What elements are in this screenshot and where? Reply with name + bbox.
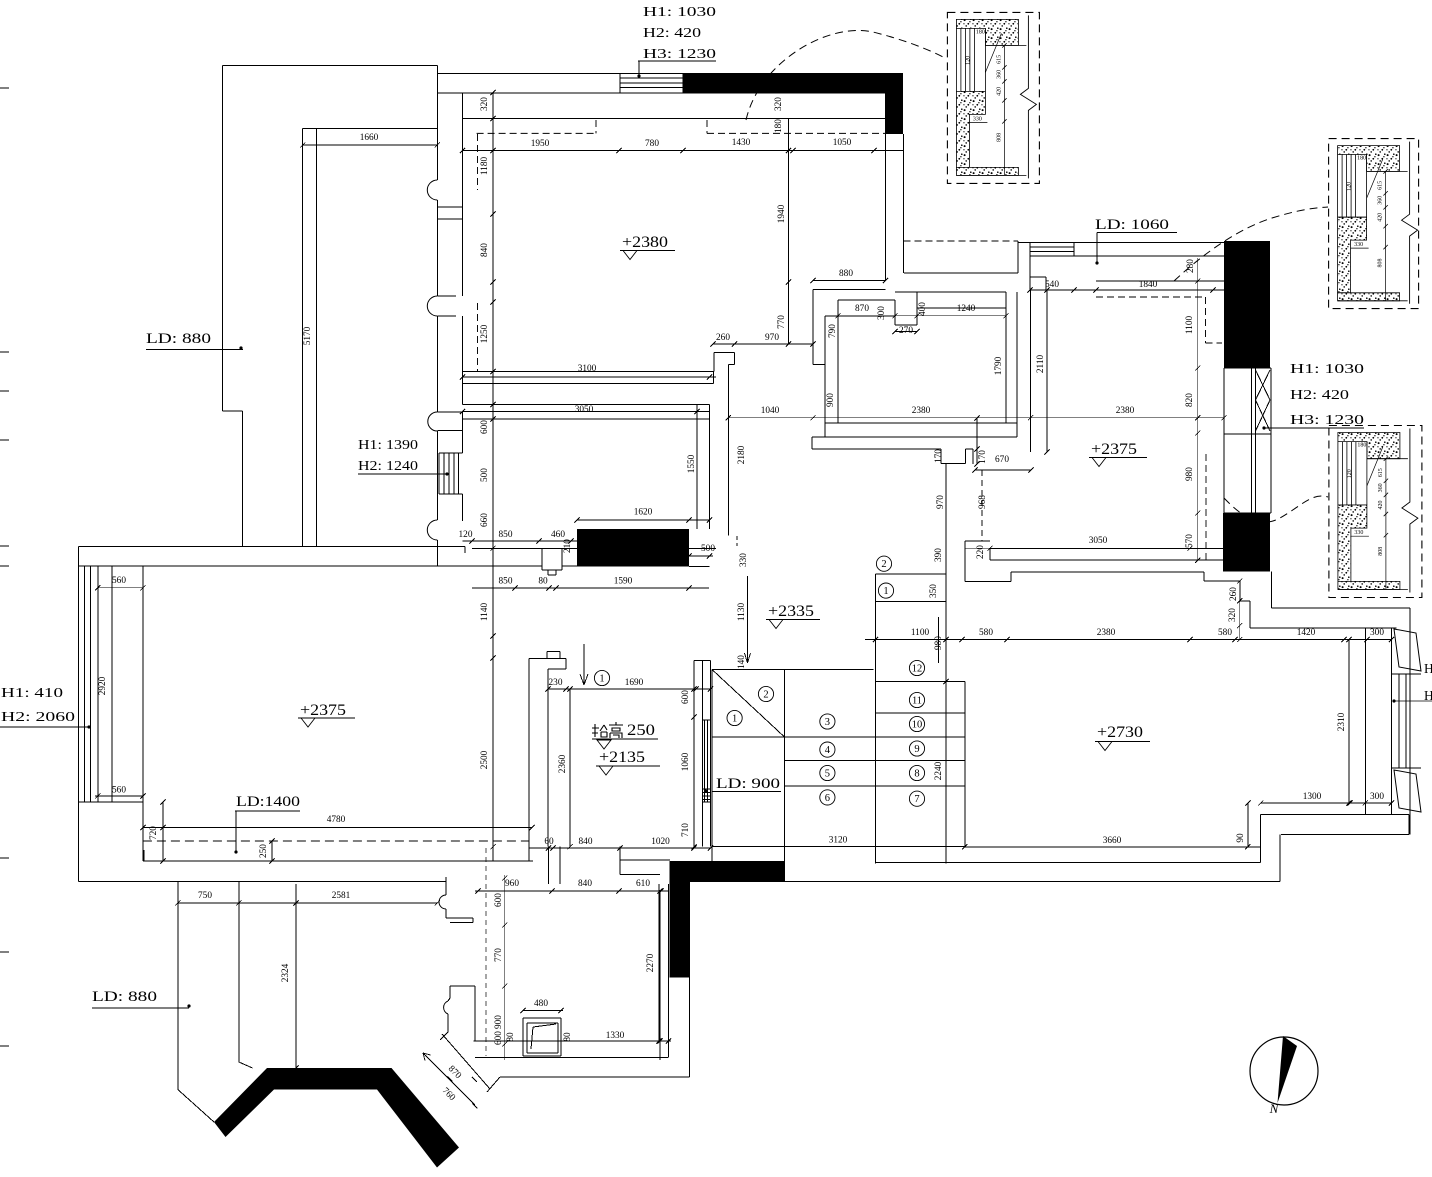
svg-text:580: 580 (979, 628, 993, 638)
svg-text:660: 660 (480, 513, 490, 527)
svg-text:8: 8 (914, 768, 919, 779)
svg-text:980: 980 (1185, 467, 1195, 481)
svg-text:420: 420 (996, 87, 1002, 96)
svg-text:H1: 1030: H1: 1030 (1290, 362, 1364, 377)
svg-text:H2: 1240: H2: 1240 (358, 459, 418, 474)
svg-text:540: 540 (1045, 280, 1059, 290)
svg-text:600: 600 (480, 420, 490, 434)
svg-text:1690: 1690 (625, 678, 644, 688)
svg-text:790: 790 (828, 324, 838, 338)
circled stair numbers (594, 670, 609, 685)
svg-text:600: 600 (681, 690, 691, 704)
svg-text:500: 500 (480, 468, 490, 482)
svg-text:12: 12 (912, 663, 923, 674)
svg-text:1100: 1100 (911, 628, 930, 638)
svg-text:3120: 3120 (829, 836, 848, 846)
svg-text:330: 330 (739, 553, 749, 567)
svg-text:2270: 2270 (646, 953, 656, 972)
svg-text:120: 120 (1347, 182, 1353, 191)
leader dashed curves (746, 30, 945, 120)
svg-text:60: 60 (544, 837, 554, 847)
svg-text:80: 80 (538, 577, 548, 587)
svg-text:H2: 420: H2: 420 (1290, 388, 1349, 403)
svg-text:1420: 1420 (1297, 628, 1316, 638)
svg-text:560: 560 (112, 786, 126, 796)
hand-drawn CJK label 抬高250 (592, 722, 623, 738)
svg-text:1950: 1950 (531, 139, 550, 149)
north compass (1250, 1037, 1318, 1105)
svg-text:808: 808 (1378, 259, 1384, 268)
svg-text:120: 120 (459, 530, 473, 540)
bay window sash flags (1394, 629, 1421, 671)
svg-text:9: 9 (914, 744, 919, 755)
svg-text:480: 480 (534, 999, 548, 1009)
svg-text:840: 840 (579, 837, 593, 847)
svg-text:250: 250 (627, 722, 655, 739)
svg-text:320: 320 (1228, 608, 1238, 622)
extra output shapes (623, 251, 637, 260)
svg-text:80: 80 (506, 1032, 516, 1042)
svg-text:4780: 4780 (327, 815, 346, 825)
door swing arcs (427, 180, 437, 200)
svg-text:968: 968 (978, 495, 988, 509)
svg-text:1550: 1550 (687, 454, 697, 473)
svg-text:870: 870 (855, 304, 869, 314)
svg-text:820: 820 (1185, 393, 1195, 407)
svg-text:420: 420 (1378, 213, 1384, 222)
svg-text:5170: 5170 (303, 326, 313, 345)
svg-text:900: 900 (494, 1015, 504, 1029)
detail box top (947, 12, 1039, 183)
svg-text:610: 610 (636, 879, 650, 889)
svg-text:850: 850 (499, 577, 513, 587)
svg-text:1790: 1790 (994, 356, 1004, 375)
svg-text:250: 250 (259, 844, 269, 858)
black filled walls (683, 73, 903, 134)
svg-text:300: 300 (1370, 628, 1384, 638)
svg-text:170: 170 (978, 450, 988, 464)
svg-text:1020: 1020 (651, 837, 670, 847)
svg-text:LD: 880: LD: 880 (92, 989, 157, 1005)
svg-text:970: 970 (936, 495, 946, 509)
svg-text:840: 840 (578, 879, 592, 889)
svg-text:460: 460 (551, 530, 565, 540)
svg-text:2581: 2581 (332, 891, 351, 901)
svg-text:+2380: +2380 (622, 234, 668, 251)
svg-text:2380: 2380 (912, 406, 931, 416)
svg-text:+2335: +2335 (768, 603, 814, 620)
svg-text:+2135: +2135 (599, 749, 645, 766)
svg-text:3050: 3050 (575, 405, 594, 415)
svg-text:1590: 1590 (614, 577, 633, 587)
svg-text:970: 970 (765, 333, 779, 343)
svg-text:330: 330 (1354, 530, 1363, 536)
svg-text:H: H (1424, 661, 1432, 676)
svg-text:260: 260 (1229, 587, 1239, 601)
svg-text:280: 280 (1186, 259, 1196, 273)
svg-text:2180: 2180 (737, 445, 747, 464)
svg-text:1100: 1100 (1185, 316, 1195, 335)
svg-text:11: 11 (912, 695, 922, 706)
svg-text:1250: 1250 (480, 324, 490, 343)
svg-text:360: 360 (996, 70, 1002, 79)
svg-text:330: 330 (1354, 242, 1363, 248)
svg-text:3660: 3660 (1103, 836, 1122, 846)
svg-text:270: 270 (899, 326, 913, 336)
svg-text:1: 1 (599, 673, 604, 684)
svg-text:H1: 410: H1: 410 (1, 686, 63, 701)
svg-text:770: 770 (777, 315, 787, 329)
svg-text:6: 6 (825, 793, 830, 804)
svg-text:5: 5 (825, 768, 830, 779)
svg-text:2500: 2500 (480, 750, 490, 769)
svg-text:1330: 1330 (606, 1031, 625, 1041)
svg-text:2: 2 (881, 559, 886, 570)
svg-text:7: 7 (914, 794, 919, 805)
svg-text:1060: 1060 (681, 752, 691, 771)
svg-text:880: 880 (839, 269, 853, 279)
svg-text:3050: 3050 (1089, 536, 1108, 546)
svg-text:LD:1400: LD:1400 (236, 794, 300, 810)
svg-text:170: 170 (934, 449, 944, 463)
svg-text:600: 600 (494, 893, 504, 907)
svg-text:H2: 2060: H2: 2060 (1, 710, 75, 725)
svg-text:1840: 1840 (1139, 280, 1158, 290)
svg-text:360: 360 (1378, 483, 1384, 492)
svg-text:2360: 2360 (558, 754, 568, 773)
svg-text:140: 140 (737, 655, 747, 669)
svg-text:710: 710 (681, 823, 691, 837)
svg-text:615: 615 (1378, 468, 1384, 477)
svg-text:320: 320 (774, 97, 784, 111)
svg-text:N: N (1269, 1101, 1280, 1116)
svg-text:LD: 900: LD: 900 (716, 776, 780, 792)
svg-text:2920: 2920 (98, 676, 108, 695)
svg-text:H2: 420: H2: 420 (643, 26, 701, 41)
svg-text:120: 120 (1347, 469, 1353, 478)
svg-text:4: 4 (825, 745, 831, 756)
svg-text:420: 420 (1378, 501, 1384, 510)
svg-text:2310: 2310 (1337, 712, 1347, 731)
svg-text:+2375: +2375 (1091, 441, 1137, 458)
svg-text:80: 80 (563, 1032, 573, 1042)
svg-text:340: 340 (1230, 280, 1244, 290)
svg-text:120: 120 (965, 56, 971, 65)
svg-text:1130: 1130 (737, 603, 747, 622)
svg-text:3: 3 (825, 717, 830, 728)
svg-text:260: 260 (716, 333, 730, 343)
svg-text:210: 210 (563, 539, 573, 553)
svg-text:1240: 1240 (957, 304, 976, 314)
svg-text:615: 615 (996, 55, 1002, 64)
svg-text:3100: 3100 (578, 364, 597, 374)
svg-text:670: 670 (995, 455, 1009, 465)
svg-text:230: 230 (549, 678, 563, 688)
svg-text:10: 10 (912, 719, 923, 730)
detail box right lower (1329, 426, 1422, 598)
svg-text:1: 1 (732, 713, 737, 724)
svg-text:780: 780 (645, 139, 659, 149)
dashed lines (143, 120, 1222, 1056)
svg-text:320: 320 (480, 97, 490, 111)
svg-text:1940: 1940 (777, 204, 787, 223)
svg-text:2240: 2240 (934, 761, 944, 780)
svg-text:350: 350 (929, 584, 939, 598)
svg-text:2110: 2110 (1036, 355, 1046, 374)
svg-text:1300: 1300 (1303, 792, 1322, 802)
svg-text:300: 300 (877, 306, 887, 320)
svg-text:980: 980 (934, 636, 944, 650)
svg-text:1180: 1180 (480, 157, 490, 176)
svg-text:500: 500 (701, 544, 715, 554)
svg-text:770: 770 (494, 948, 504, 962)
svg-text:808: 808 (996, 133, 1002, 142)
svg-text:960: 960 (505, 879, 519, 889)
svg-text:400: 400 (918, 302, 928, 316)
svg-text:808: 808 (1378, 547, 1384, 556)
svg-text:720: 720 (149, 826, 159, 840)
svg-text:1140: 1140 (480, 603, 490, 622)
svg-text:H1: 1390: H1: 1390 (358, 438, 418, 453)
svg-text:180: 180 (1357, 443, 1366, 449)
svg-text:300: 300 (1370, 792, 1384, 802)
svg-text:840: 840 (480, 243, 490, 257)
svg-text:2: 2 (763, 689, 768, 700)
svg-text:580: 580 (1218, 628, 1232, 638)
svg-text:1660: 1660 (360, 133, 379, 143)
svg-text:1050: 1050 (833, 138, 852, 148)
svg-text:90: 90 (1236, 833, 1246, 843)
detail box right upper (1329, 139, 1419, 309)
svg-text:615: 615 (1378, 181, 1384, 190)
svg-text:LD: 880: LD: 880 (146, 331, 211, 347)
svg-text:1040: 1040 (761, 406, 780, 416)
svg-text:850: 850 (499, 530, 513, 540)
svg-text:1620: 1620 (634, 508, 653, 518)
svg-text:330: 330 (973, 116, 982, 122)
svg-text:H1: 1030: H1: 1030 (643, 5, 716, 20)
svg-text:180: 180 (774, 119, 784, 133)
svg-text:1: 1 (883, 586, 888, 597)
svg-text:750: 750 (198, 891, 212, 901)
left edge dimension stubs (0, 87, 9, 89)
svg-text:+2375: +2375 (300, 702, 346, 719)
svg-text:2324: 2324 (281, 963, 291, 982)
svg-text:220: 220 (976, 545, 986, 559)
svg-text:180: 180 (976, 29, 985, 35)
svg-text:600: 600 (494, 1031, 504, 1045)
svg-text:180: 180 (1357, 156, 1366, 162)
svg-text:H3: 1230: H3: 1230 (1290, 413, 1364, 428)
svg-text:570: 570 (1185, 534, 1195, 548)
svg-text:2380: 2380 (1097, 628, 1116, 638)
svg-text:390: 390 (934, 548, 944, 562)
svg-text:900: 900 (826, 393, 836, 407)
svg-text:1430: 1430 (732, 138, 751, 148)
svg-text:LD: 1060: LD: 1060 (1095, 217, 1169, 233)
svg-text:2380: 2380 (1116, 406, 1135, 416)
svg-text:+2730: +2730 (1097, 724, 1143, 741)
svg-text:360: 360 (1378, 196, 1384, 205)
svg-text:H3: 1230: H3: 1230 (643, 47, 716, 62)
svg-text:560: 560 (112, 576, 126, 586)
